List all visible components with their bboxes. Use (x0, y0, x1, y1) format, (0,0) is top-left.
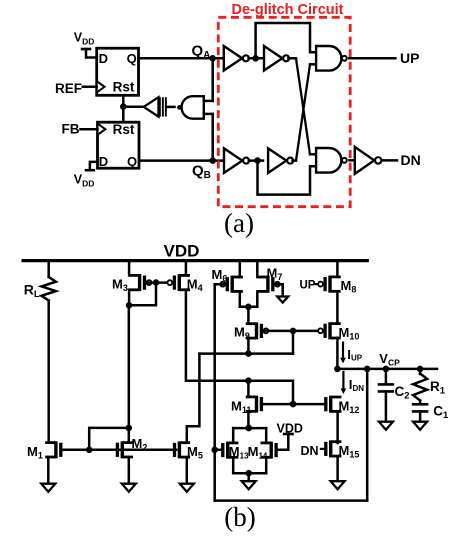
power VDD (top) (74, 31, 95, 47)
wire M11 gate line (262, 403, 326, 406)
transistor M10 (318, 322, 339, 339)
power VDD (bottom) (74, 173, 95, 189)
svg-text:De-glitch Circuit: De-glitch Circuit (232, 2, 344, 18)
node gate junction (86, 447, 93, 454)
wire delay output to Rst (123, 105, 143, 108)
node QA junction (209, 55, 216, 62)
wire M13/M14 source bus (233, 472, 266, 475)
svg-text:VDD: VDD (164, 242, 200, 261)
wire I2 out (288, 57, 296, 60)
inverter I3 (QB) (224, 148, 249, 173)
wire feedback bottom run (215, 499, 368, 502)
current arrow I_DN (341, 371, 347, 394)
wire UP output (349, 57, 395, 60)
node M2 drain junction (126, 425, 133, 432)
node M9/M10 gate junction (290, 328, 297, 335)
svg-text:Rst: Rst (113, 122, 135, 137)
wire to ground (M13/M14) (247, 473, 250, 481)
wire M13 source stub (232, 457, 235, 473)
wire C2 to ground (385, 391, 388, 421)
label M7 (267, 266, 283, 283)
D flip-flop FF2 (FB) (98, 122, 140, 168)
wire M9 drain down (247, 338, 250, 354)
AND gate U1 (reset, left-pointing) (177, 96, 204, 119)
wire cross into top NAND (310, 63, 316, 66)
input label REF (55, 81, 82, 96)
node after I1 (249, 55, 263, 62)
transistor M12 (324, 396, 340, 413)
wire rail to M7 source (256, 261, 259, 277)
wire RL to M1 drain (47, 301, 50, 443)
wire M9 drain line (199, 352, 293, 355)
wire I4 out (293, 159, 297, 162)
capacitor C1 (412, 404, 429, 411)
node junction (R1) (417, 366, 424, 373)
node junction (feedback) (364, 366, 371, 373)
svg-text:REF: REF (55, 81, 82, 96)
wire QA down to AND (211, 58, 214, 101)
VDD tap bar (bottom) (85, 169, 96, 172)
wire rail to RL (47, 261, 50, 277)
wire R1 to C1 (419, 401, 422, 405)
wire FF1 Q to node QA (139, 57, 224, 60)
svg-text:DN: DN (301, 444, 319, 458)
de-glitch circuit dashed box (218, 17, 350, 206)
current arrow I_UP (340, 342, 346, 364)
wire DN dash (320, 448, 326, 450)
label De-glitch Circuit (232, 2, 344, 18)
wire under-route bottom (258, 161, 317, 195)
label I_UP (347, 347, 362, 363)
svg-text:D: D (99, 154, 108, 169)
transistor M11 (247, 396, 263, 413)
wire cross bottom-to-top (296, 64, 310, 160)
wire FF2 Q to node QB (139, 159, 224, 162)
wire gate junction to M9 drain (292, 331, 295, 354)
wire REF to FF1 clock (83, 86, 97, 89)
ground (M15) (331, 481, 345, 489)
svg-text:(a): (a) (224, 208, 254, 238)
FF2 pin label Q (127, 154, 137, 169)
wire M13 drain stub (232, 428, 235, 443)
VDD tap bar (top) (81, 48, 92, 51)
label R1 (430, 379, 446, 397)
wire AND bottom input (204, 113, 213, 116)
svg-text:UP: UP (400, 50, 419, 66)
node M13 gate junction (211, 447, 218, 454)
node M11 drain junction (245, 377, 252, 384)
wire M7 gate to ground (276, 284, 283, 296)
node after I3 (249, 157, 263, 164)
node M13/M14 source junction (245, 470, 252, 477)
wire AND top input (204, 100, 213, 103)
resistor RL (42, 277, 56, 301)
wire M3 drain down (128, 290, 131, 306)
ground (C2) (379, 422, 393, 430)
transistor M3 (130, 274, 151, 291)
caption (a) (224, 208, 254, 238)
input label FB (62, 121, 80, 136)
label M1 (27, 444, 43, 461)
ground (C1) (413, 422, 427, 430)
label M4 (187, 277, 203, 294)
wire DN output (382, 159, 397, 162)
svg-text:D: D (99, 51, 108, 66)
label M15 (339, 443, 360, 460)
wire M6 drain down (239, 291, 242, 306)
wire gate line M1-M2-M5 (61, 449, 176, 452)
label M12 (339, 399, 360, 416)
input label DN (b) (301, 444, 319, 458)
FF1 clock input triangle (97, 81, 105, 92)
ground (M1) (41, 484, 55, 492)
wire M8 drain to M10 source (336, 291, 339, 323)
NAND gate U2 (UP) (316, 46, 347, 71)
wire M14 source stub (265, 457, 268, 473)
svg-text:UP: UP (300, 280, 316, 292)
wire M14 drain stub (265, 428, 268, 443)
wire VCP to C2 (385, 369, 388, 384)
svg-text:(b): (b) (224, 502, 255, 532)
label I_DN (349, 377, 364, 393)
node line VCP (337, 368, 437, 371)
wire M4 drain down (186, 290, 293, 404)
wire M3 diode connection (129, 283, 156, 305)
label C1 (433, 404, 449, 422)
inverter I1 (QA) (224, 46, 249, 71)
wire UP dash (314, 283, 320, 285)
wire M6-M7 common drain (240, 306, 257, 309)
wire M3 gate to M4 gate (149, 281, 171, 284)
wire cross top-to-bottom (296, 58, 310, 154)
node M3 drain junction (126, 302, 133, 309)
label RL (24, 281, 40, 300)
transistor M8 (318, 276, 339, 293)
node M13/M14 drain junction (245, 425, 252, 432)
label M3 (112, 277, 128, 294)
wire M12 source to M15 drain (336, 411, 339, 443)
wire rail to M4 source (185, 261, 188, 276)
wire gate to M2 drain (89, 428, 129, 450)
transistor M7 (259, 276, 280, 293)
FF2 pin label Rst (113, 122, 135, 137)
label M13 (229, 444, 249, 461)
node junction (M10/M12) (334, 366, 341, 373)
transistor M9 (247, 322, 268, 339)
ground (M13/M14) (242, 481, 256, 489)
svg-text:DN: DN (401, 152, 421, 168)
node M9 drain junction (245, 350, 252, 357)
wire FF1 Rst down (122, 95, 125, 122)
label M6 (212, 267, 228, 284)
wire M13 gate (215, 449, 223, 452)
transistor M14 (262, 442, 278, 459)
wire over-route top (256, 23, 317, 58)
wire M9-M10 gate line (264, 330, 321, 333)
node junction (C2) (383, 366, 390, 373)
label M2 (132, 436, 148, 453)
node Rst junction (120, 103, 127, 110)
wire M9 drain to M5 drain (187, 354, 200, 443)
ground (M5) (180, 484, 194, 492)
wire M11 drain up (247, 381, 250, 397)
resistor R1 (413, 374, 427, 401)
ground (M7 gate) (277, 297, 288, 303)
FF1 pin label D (99, 51, 108, 66)
wire delay to AND output (167, 106, 175, 109)
wire FF2 D to VDD (90, 162, 98, 170)
svg-text:Q: Q (127, 154, 137, 169)
NAND gate U3 (DN) (316, 148, 347, 173)
output label DN (401, 152, 421, 168)
wire M10 drain to output node (336, 338, 339, 369)
wire rail to M8 source (336, 261, 339, 277)
VDD tap bar (M14) (283, 433, 294, 436)
node label VCP (379, 351, 400, 367)
svg-text:Q: Q (127, 51, 137, 66)
transistor M5 (173, 441, 189, 458)
delay buffer (left-pointing) (144, 97, 159, 116)
inverter I4 (QB delayed) (268, 148, 293, 173)
output label UP (400, 50, 419, 66)
wire NAND to inverter (350, 159, 355, 162)
wire C1 to ground (419, 411, 422, 421)
wire M13/M14 drain bus (233, 427, 266, 430)
wire VDD to FF1 D (86, 49, 97, 58)
label VDD rail (164, 242, 200, 261)
wire VCP feedback down (366, 369, 369, 501)
wire M6/M7 node to M9 source (247, 307, 250, 324)
wire M1 source to ground (47, 457, 50, 484)
wire M14 gate to VDD (277, 434, 289, 450)
wire M15 source to ground (336, 456, 339, 481)
node M3-M4 gate junction (153, 279, 160, 286)
node QA label (192, 43, 211, 62)
label M14 (248, 444, 268, 461)
capacitor C2 (378, 384, 395, 391)
wire M2 source to ground (128, 457, 131, 484)
FF1 pin label Q (127, 51, 137, 66)
wire M11 source down (247, 411, 250, 428)
label M5 (187, 444, 203, 461)
svg-text:FB: FB (62, 121, 80, 136)
transistor M13 (221, 442, 237, 459)
wire FB to FF2 clock (81, 128, 98, 131)
transistor M1 (47, 441, 63, 458)
ground (M2) (122, 484, 136, 492)
power label VDD (M14) (277, 422, 303, 436)
label M8 (341, 278, 357, 295)
wire M6 gate line (215, 284, 225, 500)
power rail VDD (22, 259, 369, 262)
label M10 (339, 325, 360, 342)
wire M7 drain down (256, 291, 259, 306)
inverter I5 (DN driver) (355, 147, 382, 174)
transistor M4 (167, 274, 188, 291)
caption (b) (224, 502, 255, 532)
label M9 (234, 325, 250, 342)
wire VCP to R1 (419, 369, 422, 374)
svg-text:Rst: Rst (113, 80, 135, 95)
wire cross into bottom NAND (310, 153, 316, 156)
delay bars (159, 97, 167, 116)
D flip-flop FF1 (REF) (97, 48, 139, 95)
wire M2 drain up (128, 305, 131, 442)
input label UP (b) (300, 280, 316, 292)
wire rail to M6 source (239, 261, 242, 277)
FF2 pin label D (99, 154, 108, 169)
transistor M15 (324, 440, 340, 457)
node QB junction (209, 157, 216, 164)
label M11 (231, 399, 251, 416)
label C2 (395, 384, 410, 402)
wire QB up to AND (211, 114, 214, 161)
FF1 pin label Rst (113, 80, 135, 95)
node M6/M7 drain junction (245, 304, 252, 311)
wire rail to M3 source (128, 261, 131, 276)
node M11/M12 gate junction (290, 401, 297, 408)
svg-text:VDD: VDD (277, 422, 303, 436)
transistor M6 (220, 276, 241, 293)
transistor M2 (116, 441, 132, 458)
node QB label (192, 163, 211, 182)
wire M5 source to ground (186, 457, 189, 484)
FF2 clock input triangle (98, 124, 106, 135)
inverter I2 (QA delayed) (264, 46, 289, 71)
